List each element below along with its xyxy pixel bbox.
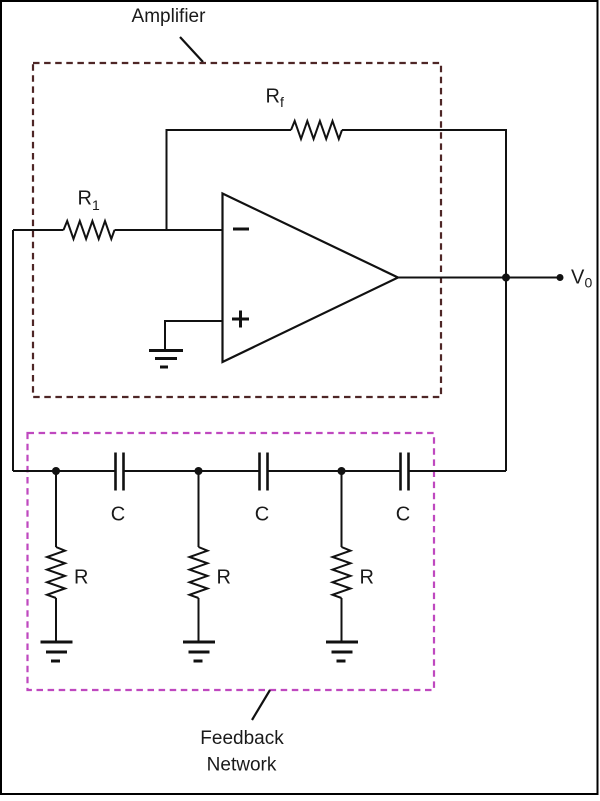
node: output terminal dot (557, 274, 564, 281)
resistor Rf (291, 121, 342, 139)
wire: left vertical return (input node down to feedback rail) (12, 230, 14, 471)
wire: feedback rail segment 3 (268, 470, 401, 472)
wire: R1 to op-amp inverting input (115, 229, 223, 231)
svg-text:R: R (266, 86, 280, 108)
svg-text:0: 0 (585, 275, 593, 291)
wire: resistor1 to ground (55, 598, 57, 642)
svg-text:C: C (111, 504, 125, 526)
resistor R (third shunt) (333, 547, 351, 598)
label V0 (571, 267, 593, 291)
wire: inverting input node up to Rf row (167, 130, 292, 230)
wire: resistor3 to ground (341, 598, 343, 642)
op-amp U1 (223, 194, 399, 363)
label R1 (78, 188, 101, 214)
leader line from Amplifier label to box (180, 37, 203, 62)
wire: left input segment (13, 229, 64, 231)
svg-text:C: C (255, 504, 269, 526)
svg-text:C: C (396, 504, 410, 526)
ground under second shunt resistor (183, 642, 215, 661)
wire: resistor2 to ground (198, 598, 200, 642)
wire: feedback rail segment 1 (13, 470, 115, 472)
svg-text:f: f (280, 94, 284, 110)
ground under third shunt resistor (326, 642, 358, 661)
wire: node2 down to resistor (198, 471, 200, 547)
wire: node1 down to resistor (55, 471, 57, 547)
svg-text:R: R (217, 567, 231, 589)
node: rail junction 2 (195, 467, 203, 475)
svg-text:R: R (74, 567, 88, 589)
wire: op-amp output (398, 277, 560, 279)
resistor R (first shunt) (47, 547, 65, 598)
ground under first shunt resistor (41, 642, 73, 661)
node: rail junction 3 (338, 467, 346, 475)
svg-text:R: R (360, 567, 374, 589)
wire: Rf to right side, down to feedback rail (342, 130, 506, 471)
wire: non-inverting input to ground (165, 321, 223, 349)
capacitor C3 (401, 453, 409, 491)
feedback network dashed box (28, 433, 435, 690)
capacitor C1 (116, 453, 124, 491)
svg-text:Network: Network (207, 755, 277, 776)
wire: feedback rail segment 4 (409, 470, 507, 472)
amplifier dashed box (33, 63, 441, 397)
node: output/feedback junction (502, 274, 510, 282)
node: rail junction 1 (52, 467, 60, 475)
label Rf (266, 86, 285, 111)
svg-text:V: V (571, 267, 585, 289)
resistor R (second shunt) (190, 547, 208, 598)
ground at op-amp non-inverting input (149, 351, 183, 368)
svg-text:Amplifier: Amplifier (132, 6, 207, 27)
resistor R1 (64, 221, 115, 239)
wire: node3 down to resistor (341, 471, 343, 547)
svg-text:1: 1 (92, 197, 100, 213)
capacitor C2 (260, 453, 268, 491)
leader line from box to Feedback Network label (252, 690, 270, 720)
svg-text:R: R (78, 188, 92, 210)
wire: feedback rail segment 2 (124, 470, 260, 472)
svg-text:Feedback: Feedback (200, 728, 284, 749)
